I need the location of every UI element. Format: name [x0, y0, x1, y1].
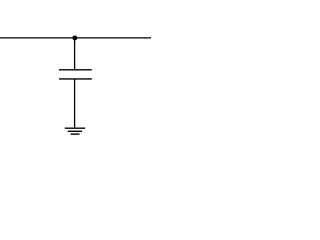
wire: junction to capacitor top — [74, 38, 76, 70]
capacitor C1 bottom plate — [59, 78, 92, 80]
capacitor C1 top plate — [59, 69, 92, 71]
wire: capacitor bottom to ground — [74, 79, 76, 128]
ground: bar 3 — [71, 133, 80, 135]
wire: top horizontal net — [0, 37, 151, 39]
node: junction dot — [72, 35, 77, 40]
ground: bar 1 — [65, 127, 85, 129]
ground: bar 2 — [68, 130, 82, 132]
